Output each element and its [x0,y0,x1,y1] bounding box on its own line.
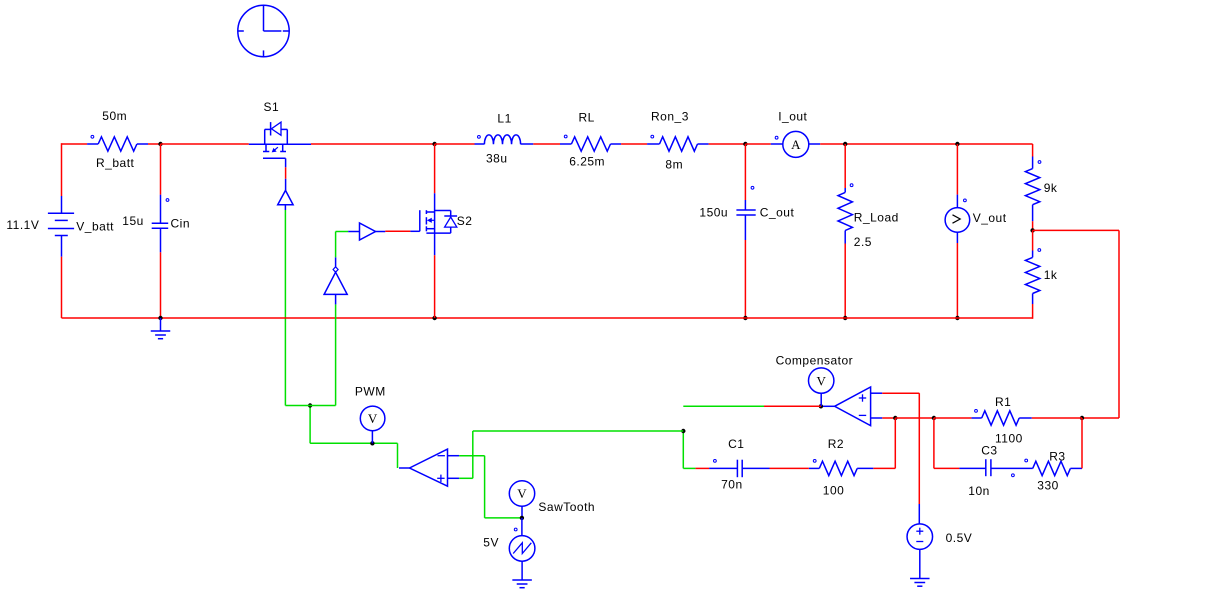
node sawtooth junction [520,516,524,520]
wire comparator plus input [459,431,473,478]
wire Cin to bottom rail [160,252,162,318]
wire PWM node up to gate node [309,406,311,444]
node M1 junction [893,416,897,420]
svg-text:S1: S1 [264,100,280,114]
svg-text:L1: L1 [497,111,511,125]
wire right corner down to 9k [1032,144,1034,157]
svg-text:5V: 5V [483,535,499,549]
svg-text:RL: RL [579,110,595,124]
junction C_out bottom [743,316,747,320]
junction V_out bottom [955,316,959,320]
wire comp out to comparator plus [473,430,684,432]
resistor 1k [1025,249,1057,304]
wire S2 drain lead [434,193,436,210]
svg-text:Ron_3: Ron_3 [651,110,689,124]
wire C_out to bottom rail [744,240,746,318]
buffer U4 (gate driver) [348,223,385,240]
voltmeter SawTooth [509,481,595,518]
wire plus down to Vref [918,393,920,504]
wire R_batt to node IN [148,143,161,145]
svg-text:I_out: I_out [778,110,807,124]
resistor R1 1100 [971,395,1082,445]
capacitor C1 70n [709,437,769,491]
wire minus stub to node M1 [882,417,895,419]
wire S1 gate green vertical [284,210,286,406]
voltmeter PWM [355,385,386,444]
wire Ron_3 to node OUT1 [709,143,746,145]
junction R_Load bottom [843,316,847,320]
svg-text:50m: 50m [102,109,127,123]
svg-text:R_Load: R_Load [854,211,899,225]
transistor S1 (MOSFET switch) [249,100,311,158]
svg-text:38u: 38u [486,152,508,166]
resistor Ron_3 8m [647,110,709,172]
wire node SW down to S2 [434,144,436,193]
ground sawtooth [512,580,532,588]
capacitor Cin 15u [122,195,190,253]
wire plus stub right [882,392,919,394]
svg-text:9k: 9k [1044,181,1058,195]
wire RL to Ron_3 [621,143,647,145]
wire comp out branch vertical [682,431,684,468]
svg-text:C_out: C_out [760,206,795,220]
wire S2 to bottom rail [434,255,436,318]
wire node OUT1 down to C_out [744,144,746,200]
wire left rail vertical upper [61,143,63,196]
wire comparator output [310,443,397,468]
wire left rail vertical lower [61,257,63,318]
wire down to V_out [956,144,958,195]
wire inverter input green vertical [335,304,337,405]
wire node FB right [1033,229,1119,231]
svg-text:V: V [368,411,378,426]
svg-text:V_batt: V_batt [76,219,114,233]
capacitor C3 10n [959,443,1032,498]
wire node M2 to R1 [934,417,972,419]
wire to C3 left lead [934,467,960,469]
wire node M2 down [933,418,935,468]
wire R3 up to node R1R3 [1081,418,1083,468]
svg-text:15u: 15u [122,214,144,228]
wire node FB down to 1k [1032,230,1034,250]
op-amp U1 (Compensator error amplifier) [821,387,882,426]
svg-text:V_out: V_out [973,211,1007,225]
node comp out junction [819,404,823,408]
wire node IN down to Cin [160,144,162,195]
svg-text:PWM: PWM [355,385,386,399]
node gate junction [308,403,312,407]
svg-text:Compensator: Compensator [776,354,854,368]
svg-text:6.25m: 6.25m [569,154,605,168]
clock symbol [238,5,289,56]
ground Vref [910,579,930,587]
svg-text:R1: R1 [995,395,1011,409]
resistor R_Load 2.5 [838,184,899,249]
wire node IN to S1 [161,143,249,145]
resistor RL 6.25m [560,110,621,168]
node R1R3 junction [1080,416,1084,420]
voltmeter Compensator [776,354,854,407]
wire R_Load to bottom rail [844,244,846,319]
inverter U3 [324,257,347,304]
junction S2 source bottom [432,316,436,320]
wire top rail left [62,143,88,145]
inductor L1 38u [435,111,534,165]
wire S2 gate lead [410,230,419,232]
svg-text:V: V [517,486,527,501]
svg-text:R3: R3 [1049,449,1065,463]
junction R_Load top [843,142,847,146]
wire inverter to buffer [336,232,349,258]
node OUT1 junction [743,142,747,146]
node comp out branch junction [681,429,685,433]
node SW junction [432,142,436,146]
ammeter I_out [745,110,820,158]
gating block for S1 [278,190,293,210]
svg-text:SawTooth: SawTooth [538,500,595,514]
wire comp out green segment [683,405,764,407]
wire bottom rail [62,317,1033,319]
wire feedback to node R1R3 [1082,417,1119,419]
wire node M1 to node M2 [895,417,934,419]
svg-text:0.5V: 0.5V [946,531,973,545]
svg-text:70n: 70n [721,477,743,491]
wire C1 to R2 [770,467,809,469]
transistor S2 (MOSFET sync rectifier) [420,210,473,233]
svg-text:V: V [817,373,827,388]
voltage source 0.5V [907,504,972,579]
node M2 junction [932,416,936,420]
resistor R_batt 50m [87,109,148,170]
voltmeter V_out [945,195,1007,243]
wire C1 branch green corner [683,467,695,469]
node FB junction [1030,228,1034,232]
wire comparator minus input [459,456,522,518]
svg-text:A: A [791,137,801,152]
wire down to R_Load [844,144,846,188]
resistor 9k [1025,157,1057,222]
svg-text:8m: 8m [665,157,683,171]
wire to R2 right lead [873,467,895,469]
svg-text:10n: 10n [968,484,990,498]
svg-text:11.1V: 11.1V [6,218,39,232]
wire S2 source lead [434,233,436,255]
wire gate node horizontal [285,405,335,407]
wire comp out red segment [764,405,821,407]
resistor R3 330 [1025,449,1082,492]
wire buffer to S2 gate red [385,230,410,232]
svg-text:1k: 1k [1044,268,1058,282]
ground main [151,318,171,339]
node PWM junction [370,441,374,445]
wire S1 to node SW [311,143,435,145]
wire feedback vertical [1118,230,1120,418]
node IN junction [158,142,162,146]
wire I_out to right corner [820,143,1032,145]
wire node M1 down [894,418,896,468]
comparator U2 [399,449,459,486]
svg-text:1100: 1100 [995,431,1023,445]
junction V_out top [955,142,959,146]
svg-text:150u: 150u [699,205,728,219]
svg-text:R_batt: R_batt [96,156,135,170]
wire L1 to RL [533,143,560,145]
sawtooth source 5V [483,518,535,580]
svg-text:C1: C1 [728,437,744,451]
resistor R2 100 [809,437,874,498]
svg-text:2.5: 2.5 [854,235,872,249]
wire V_out to bottom rail [956,243,958,318]
svg-text:R2: R2 [828,437,844,451]
capacitor C_out 150u [699,186,794,240]
wire C1 left lead red [695,467,709,469]
battery V_batt 11.1V [6,196,114,257]
svg-text:C3: C3 [981,443,997,457]
wire 9k to node FB [1032,221,1034,230]
junction ground node [158,316,162,320]
svg-text:S2: S2 [457,214,473,228]
svg-text:330: 330 [1037,478,1059,492]
wire S1 gate lead [285,158,287,190]
wire 1k to bottom rail [1032,304,1034,319]
svg-text:100: 100 [823,484,845,498]
svg-text:Cin: Cin [171,217,191,231]
